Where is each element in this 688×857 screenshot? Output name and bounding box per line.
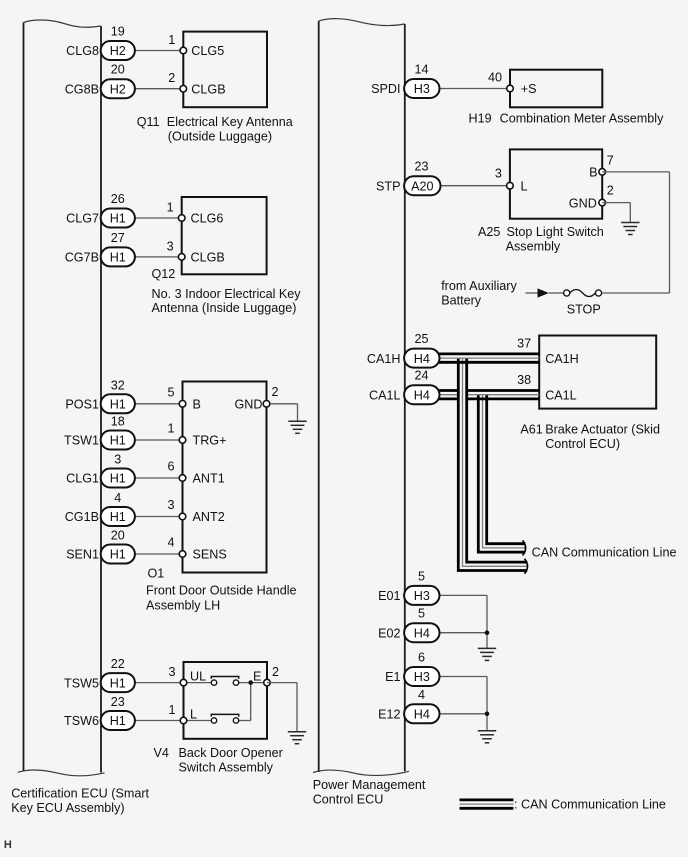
- pin number 5 (E01): [418, 569, 425, 583]
- net label CG1B: [65, 510, 99, 524]
- svg-text:25: 25: [414, 332, 428, 346]
- svg-text:H1: H1: [110, 212, 126, 226]
- wire TSW1 to O1 pin 1: [135, 439, 183, 441]
- svg-text:H2: H2: [110, 82, 126, 96]
- net label E02: [378, 626, 400, 640]
- svg-text:B: B: [589, 166, 597, 180]
- component box Q12: [182, 197, 267, 274]
- pin label ANT2 (O1): [193, 510, 225, 524]
- pin label B (O1): [193, 398, 201, 412]
- svg-text:2: 2: [272, 385, 279, 399]
- svg-text:ANT1: ANT1: [193, 472, 225, 486]
- svg-text:CLG5: CLG5: [191, 44, 224, 58]
- pin circle O1 ANT2: [179, 513, 186, 520]
- pin label TRG+ (O1): [193, 434, 227, 448]
- pin circle H19 pin 40: [507, 85, 514, 92]
- pin number 5 (O1 B): [167, 386, 174, 400]
- left ECU bus left wire: [23, 23, 25, 771]
- svg-text:TSW6: TSW6: [64, 714, 99, 728]
- svg-text:H: H: [4, 839, 12, 851]
- label STOP: [567, 302, 601, 316]
- wire CG8B to Q11 pin 2: [135, 88, 184, 90]
- pin number 20: [111, 63, 125, 77]
- pin number 38 (A61): [517, 373, 531, 387]
- svg-text:27: 27: [111, 231, 125, 245]
- svg-text:L: L: [190, 708, 197, 722]
- pin number 19: [111, 25, 125, 39]
- label H19 Combination Meter Assembly: [469, 112, 665, 126]
- svg-text:L: L: [521, 179, 528, 193]
- net label TSW6: [64, 714, 99, 728]
- wire O1 GND pin 2 to ground: [267, 404, 298, 422]
- pin circle Q11 pin 1: [180, 47, 187, 54]
- svg-text:UL: UL: [190, 670, 206, 684]
- svg-text:CG8B: CG8B: [65, 82, 99, 96]
- connector POS1 H1: [101, 394, 135, 413]
- svg-text:H1: H1: [110, 398, 126, 412]
- wire TSW5 to V4 pin 3: [135, 682, 184, 684]
- pin number 3 (O1 ANT2): [167, 498, 174, 512]
- connector TSW1 H1: [101, 431, 135, 450]
- wire POS1 to O1 pin 5: [135, 403, 183, 405]
- wire A25 GND to ground: [602, 203, 630, 223]
- pin circle O1 TRG+: [179, 437, 186, 444]
- svg-text:ANT2: ANT2: [193, 510, 225, 524]
- switch blade L: [211, 714, 238, 716]
- pin number 37 (A61): [517, 337, 531, 351]
- label O1 Front Door Outside Handle Assembly LH: [146, 566, 297, 612]
- junction dot (V4): [248, 680, 253, 685]
- connector CG8B H2: [101, 79, 135, 98]
- pin number 40 (H19): [488, 71, 502, 85]
- svg-text:POS1: POS1: [65, 398, 99, 412]
- wire UL switch to E pin with junction: [239, 682, 267, 684]
- svg-text:H2: H2: [110, 44, 126, 58]
- svg-text:20: 20: [111, 529, 125, 543]
- legend label CAN Communication Line: [514, 798, 666, 812]
- pin number 25: [414, 332, 428, 346]
- pin label GND (O1): [235, 398, 263, 412]
- pin number 20 (SEN1): [111, 529, 125, 543]
- pin circle V4 pin 1: [180, 717, 187, 724]
- svg-text:4: 4: [167, 536, 174, 550]
- wire E1 to junction: [440, 677, 488, 714]
- svg-text:TSW5: TSW5: [64, 676, 99, 690]
- svg-text:CA1L: CA1L: [369, 388, 401, 402]
- net label CLG7: [66, 212, 99, 226]
- component box A61: [539, 336, 656, 409]
- svg-text:STP: STP: [376, 179, 401, 193]
- connector CLG8 H2: [101, 41, 135, 60]
- pin label SENS (O1): [193, 548, 227, 562]
- svg-text:H1: H1: [110, 510, 126, 524]
- svg-text:5: 5: [418, 607, 425, 621]
- legend CAN communication line sample: [460, 800, 514, 808]
- wire V4 pin1 to L switch: [184, 720, 212, 722]
- component box Q11: [183, 32, 267, 108]
- pin number 22: [111, 657, 125, 671]
- svg-text:H3: H3: [414, 670, 430, 684]
- label A25 Stop Light Switch Assembly: [478, 225, 604, 254]
- svg-text:H19: H19: [469, 112, 492, 126]
- pin label GND (A25): [569, 196, 597, 210]
- connector SPDI H3: [404, 79, 439, 98]
- svg-text:32: 32: [111, 378, 125, 392]
- svg-text:24: 24: [414, 369, 428, 383]
- svg-text:Assembly: Assembly: [506, 239, 561, 253]
- wire SPDI to H19 pin 40: [440, 88, 511, 90]
- connector CLG7 H1: [101, 209, 135, 228]
- pin number 24: [414, 369, 428, 383]
- pin number 27: [111, 231, 125, 245]
- pin circle Q11 pin 2: [180, 85, 187, 92]
- label CAN Communication Line (branch): [532, 545, 677, 559]
- svg-text:CLG6: CLG6: [191, 212, 224, 226]
- pin circle A25 B: [599, 169, 606, 176]
- pin label CLGB (Q11): [191, 82, 225, 96]
- svg-text:18: 18: [111, 415, 125, 429]
- right ECU bus right wire: [404, 24, 406, 771]
- svg-text:Combination Meter Assembly: Combination Meter Assembly: [500, 112, 664, 126]
- svg-text:Front Door Outside Handle: Front Door Outside Handle: [146, 584, 297, 598]
- svg-text:H4: H4: [414, 352, 430, 366]
- connector CLG1 H1: [101, 469, 135, 488]
- net label CG8B: [65, 82, 99, 96]
- svg-text:Electrical Key Antenna: Electrical Key Antenna: [167, 115, 293, 129]
- svg-text:19: 19: [111, 25, 125, 39]
- svg-text:Control ECU): Control ECU): [545, 437, 620, 451]
- pin number 2 (V4 E): [272, 665, 279, 679]
- svg-text:H4: H4: [414, 708, 430, 722]
- connector TSW5 H1: [101, 673, 135, 692]
- pin circle V4 pin E: [264, 679, 271, 686]
- arrowhead: [538, 288, 549, 297]
- component box A25: [510, 149, 602, 218]
- component box O1: [183, 382, 267, 573]
- label Q11 Electrical Key Antenna: [137, 115, 293, 144]
- junction dot (E12): [485, 712, 490, 717]
- svg-text:O1: O1: [148, 566, 165, 580]
- svg-text:CA1H: CA1H: [367, 352, 401, 366]
- wire CLG7 to Q12 pin 1: [135, 217, 182, 219]
- svg-text:14: 14: [414, 63, 428, 77]
- svg-text:E1: E1: [385, 670, 400, 684]
- svg-text:Control ECU: Control ECU: [313, 793, 384, 807]
- svg-text:7: 7: [607, 153, 614, 167]
- ground symbol (V4): [288, 732, 306, 744]
- svg-text:37: 37: [517, 337, 531, 351]
- CAN break arc (lower): [525, 559, 528, 574]
- pin label E (V4): [253, 670, 261, 684]
- wire SEN1 to O1 pin 4: [135, 553, 183, 555]
- pin number 14: [414, 63, 428, 77]
- component box H19: [510, 70, 602, 108]
- net label CLG8: [66, 44, 99, 58]
- wire STP to A25 pin 3: [441, 185, 510, 187]
- pin circle O1 B: [179, 401, 186, 408]
- svg-text:CLGB: CLGB: [191, 251, 225, 265]
- svg-text:22: 22: [111, 657, 125, 671]
- switch contact circles L: [211, 718, 238, 723]
- pin number 3 (A25): [495, 166, 502, 180]
- connector CG1B H1: [101, 507, 135, 526]
- wire E01 to junction: [440, 595, 488, 632]
- svg-text:SEN1: SEN1: [66, 548, 99, 562]
- ground symbol (A25): [621, 223, 639, 235]
- left ECU bus bottom break wave: [18, 770, 105, 776]
- svg-text:Stop Light Switch: Stop Light Switch: [507, 225, 604, 239]
- svg-text:TRG+: TRG+: [193, 434, 227, 448]
- svg-text:H1: H1: [110, 676, 126, 690]
- svg-text:Battery: Battery: [441, 294, 482, 308]
- wire fuse to B-pin line: [602, 292, 670, 294]
- svg-text:5: 5: [167, 386, 174, 400]
- svg-text:No. 3 Indoor Electrical Key: No. 3 Indoor Electrical Key: [152, 287, 302, 301]
- label from Auxiliary Battery: [441, 279, 517, 308]
- switch blade UL: [211, 677, 238, 679]
- net label STP: [376, 179, 401, 193]
- svg-text:SPDI: SPDI: [371, 82, 400, 96]
- svg-text:E12: E12: [378, 708, 400, 722]
- CAN branch from CA1H down to communication line: [457, 358, 527, 572]
- svg-text:1: 1: [168, 33, 175, 47]
- svg-text:23: 23: [414, 160, 428, 174]
- wire E12 to ground: [440, 714, 488, 731]
- svg-text:Key ECU Assembly): Key ECU Assembly): [11, 801, 124, 815]
- net label CA1H: [367, 352, 401, 366]
- svg-text:2: 2: [168, 71, 175, 85]
- net label E12: [378, 708, 400, 722]
- wire CLG1 to O1 pin 6: [135, 477, 183, 479]
- connector E01 H3: [404, 586, 439, 605]
- svg-text:V4: V4: [154, 746, 169, 760]
- net label CG7B: [65, 251, 99, 265]
- pin number 2 (O1 GND): [272, 385, 279, 399]
- pin label CA1H (A61): [545, 352, 579, 366]
- svg-text:CLG8: CLG8: [66, 44, 99, 58]
- pin label L (A25): [521, 179, 528, 193]
- net label CLG1: [66, 472, 99, 486]
- wire A25 B to stop fuse line: [602, 172, 669, 293]
- svg-text:H3: H3: [414, 589, 430, 603]
- svg-text:B: B: [193, 398, 201, 412]
- wire V4 pin3 to UL switch: [184, 682, 212, 684]
- pin number 23 (STP): [414, 160, 428, 174]
- svg-text:6: 6: [418, 651, 425, 665]
- wire from auxiliary battery: [526, 292, 539, 294]
- svg-text:CG1B: CG1B: [65, 510, 99, 524]
- connector TSW6 H1: [101, 711, 135, 730]
- pin label B (A25): [589, 166, 597, 180]
- wire E02 to ground: [440, 633, 488, 649]
- pin circle O1 SENS: [179, 551, 186, 558]
- pin circle Q12 pin 3: [178, 254, 185, 261]
- pin number 1 (Q12): [167, 201, 174, 215]
- pin label +S (H19): [521, 82, 537, 96]
- svg-text:H1: H1: [110, 434, 126, 448]
- net label SEN1: [66, 548, 99, 562]
- net label POS1: [65, 398, 99, 412]
- pin circle O1 GND: [263, 401, 270, 408]
- pin number 2 (A25 GND): [607, 184, 614, 198]
- svg-text:TSW1: TSW1: [64, 434, 99, 448]
- svg-text:GND: GND: [569, 196, 597, 210]
- pin label UL (V4): [190, 670, 206, 684]
- svg-text:3: 3: [168, 665, 175, 679]
- svg-text:(Outside Luggage): (Outside Luggage): [168, 130, 272, 144]
- connector STP A20: [404, 176, 440, 195]
- CAN bus wire CA1H: [439, 354, 540, 362]
- svg-text:1: 1: [167, 201, 174, 215]
- svg-text:CLG7: CLG7: [66, 212, 99, 226]
- connector E12 H4: [404, 704, 439, 723]
- svg-text:H1: H1: [110, 472, 126, 486]
- ground symbol (E02): [478, 648, 496, 660]
- label Certification ECU (Smart Key ECU Assembly): [11, 786, 149, 815]
- connector E1 H3: [404, 667, 439, 686]
- pin circle A25 L: [507, 182, 514, 189]
- label V4 Back Door Opener Switch Assembly: [154, 746, 283, 775]
- right ECU bus top break wave: [319, 19, 405, 26]
- pin number 32 (POS1): [111, 378, 125, 392]
- svg-text:2: 2: [272, 665, 279, 679]
- svg-text:6: 6: [167, 460, 174, 474]
- ground symbol (O1): [288, 421, 306, 433]
- svg-text:E: E: [253, 670, 261, 684]
- svg-text:Q11: Q11: [137, 115, 160, 129]
- pin number 5 (E02): [418, 607, 425, 621]
- svg-text:2: 2: [607, 184, 614, 198]
- svg-text:H4: H4: [414, 626, 430, 640]
- svg-text:CLG1: CLG1: [66, 472, 99, 486]
- svg-text:Assembly LH: Assembly LH: [146, 598, 220, 612]
- pin circle A25 GND: [599, 199, 606, 206]
- pin number 1 (O1 TRG+): [167, 422, 174, 436]
- svg-text:E02: E02: [378, 626, 400, 640]
- svg-text:SENS: SENS: [193, 548, 227, 562]
- pin number 7 (A25 B): [607, 153, 614, 167]
- svg-text:+S: +S: [521, 82, 537, 96]
- pin number 1 (V4): [168, 703, 175, 717]
- pin number 1 (Q11): [168, 33, 175, 47]
- wire V4 E to ground: [267, 683, 297, 732]
- ground symbol (E12): [478, 731, 496, 743]
- svg-text:A20: A20: [411, 179, 433, 193]
- left ECU bus top break wave: [24, 20, 102, 27]
- pin number 4 (E12): [418, 688, 425, 702]
- svg-text:Q12: Q12: [152, 267, 176, 281]
- svg-text:Certification ECU (Smart: Certification ECU (Smart: [11, 786, 149, 800]
- svg-text:1: 1: [167, 422, 174, 436]
- svg-text:Antenna (Inside Luggage): Antenna (Inside Luggage): [152, 301, 297, 315]
- svg-text:38: 38: [517, 373, 531, 387]
- connector SEN1 H1: [101, 545, 135, 564]
- svg-text:5: 5: [418, 569, 425, 583]
- connector CA1L H4: [404, 385, 439, 404]
- pin label CLG5 (Q11): [191, 44, 224, 58]
- svg-text:H3: H3: [414, 82, 430, 96]
- pin number 3 (V4): [168, 665, 175, 679]
- svg-text:4: 4: [114, 491, 121, 505]
- svg-text:Switch Assembly: Switch Assembly: [179, 761, 274, 775]
- svg-text:20: 20: [111, 63, 125, 77]
- connector CA1H H4: [404, 349, 439, 368]
- net label TSW5: [64, 676, 99, 690]
- svg-text:H1: H1: [110, 714, 126, 728]
- svg-text:CA1L: CA1L: [545, 388, 577, 402]
- wire arrow to fuse: [549, 292, 564, 294]
- wire CLG8 to Q11 pin 1: [135, 50, 184, 52]
- wire TSW6 to V4 pin 1: [135, 720, 184, 722]
- left ECU bus right wire: [100, 26, 102, 773]
- svg-text:Power Management: Power Management: [313, 778, 426, 792]
- net label E1: [385, 670, 400, 684]
- svg-text:3: 3: [167, 498, 174, 512]
- label Power Management Control ECU: [313, 778, 426, 807]
- pin label CLGB (Q12): [191, 251, 225, 265]
- svg-text:CG7B: CG7B: [65, 251, 99, 265]
- connector CG7B H1: [101, 247, 135, 266]
- pin number 23 (TSW6): [111, 695, 125, 709]
- fuse STOP: [564, 290, 602, 297]
- page letter H: [4, 839, 12, 851]
- net label CA1L: [369, 388, 401, 402]
- pin number 4 (O1 SENS): [167, 536, 174, 550]
- pin circle V4 pin 3: [180, 679, 187, 686]
- svg-text:CA1H: CA1H: [545, 352, 579, 366]
- pin number 2 (Q11): [168, 71, 175, 85]
- wire L switch up to junction: [239, 683, 251, 721]
- svg-text:GND: GND: [235, 398, 263, 412]
- pin label CLG6 (Q12): [191, 212, 224, 226]
- pin number 6 (E1): [418, 651, 425, 665]
- right ECU bus left wire: [318, 21, 320, 772]
- pin label CA1L (A61): [545, 388, 577, 402]
- switch contact circles UL: [211, 680, 238, 685]
- svg-text:H4: H4: [414, 388, 430, 402]
- svg-text:CAN Communication Line: CAN Communication Line: [532, 545, 677, 559]
- svg-text:from Auxiliary: from Auxiliary: [441, 279, 517, 293]
- wire CG1B to O1 pin 3: [135, 516, 183, 518]
- svg-text:3: 3: [167, 239, 174, 253]
- pin circle Q12 pin 1: [178, 215, 185, 222]
- pin number 4 (CG1B): [114, 491, 121, 505]
- component box V4: [184, 662, 268, 739]
- pin number 26: [111, 192, 125, 206]
- svg-text:1: 1: [168, 703, 175, 717]
- wire CG7B to Q12 pin 3: [135, 256, 182, 258]
- CAN bus wire CA1L: [439, 391, 540, 399]
- svg-text:H1: H1: [110, 251, 126, 265]
- svg-text:40: 40: [488, 71, 502, 85]
- svg-text:E01: E01: [378, 589, 400, 603]
- pin number 3 (Q12): [167, 239, 174, 253]
- pin number 6 (O1 ANT1): [167, 460, 174, 474]
- net label SPDI: [371, 82, 400, 96]
- svg-text:A25: A25: [478, 225, 500, 239]
- label Q12 No.3 Indoor Electrical Key Antenna: [152, 267, 302, 315]
- svg-text:: CAN Communication Line: : CAN Communication Line: [514, 798, 666, 812]
- CAN break arc (upper): [523, 540, 526, 555]
- pin label ANT1 (O1): [193, 472, 225, 486]
- svg-text:A61: A61: [520, 423, 542, 437]
- pin label L (V4): [190, 708, 197, 722]
- connector E02 H4: [404, 623, 439, 642]
- svg-text:Brake Actuator (Skid: Brake Actuator (Skid: [545, 423, 660, 437]
- svg-text:26: 26: [111, 192, 125, 206]
- pin circle O1 ANT1: [179, 475, 186, 482]
- label A61 Brake Actuator (Skid Control ECU): [520, 423, 660, 452]
